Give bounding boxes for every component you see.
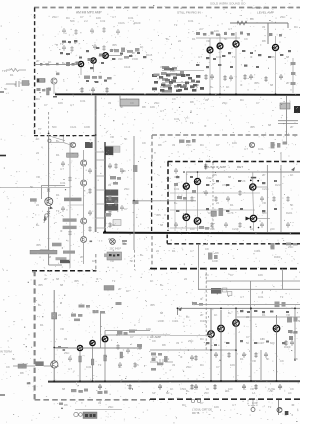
svg-text:1K: 1K: [214, 313, 218, 317]
component cluster above B+ bus: [56, 73, 160, 80]
svg-text:2.2: 2.2: [84, 19, 88, 23]
transistor Q18: [218, 325, 225, 332]
svg-text:5K: 5K: [124, 137, 128, 141]
capacitor C14: [229, 75, 233, 81]
svg-text:C7: C7: [80, 15, 84, 19]
svg-text:22: 22: [156, 249, 160, 253]
svg-text:39K: 39K: [210, 227, 215, 231]
svg-text:C7: C7: [172, 79, 176, 83]
resistor R26: [243, 74, 246, 80]
wire Q16 to bus: [104, 342, 106, 381]
wire vertical x54 bottom: [53, 290, 55, 361]
node bus94 x220: [219, 93, 221, 95]
relay K1 box: [211, 288, 221, 294]
wire x252 lower: [253, 222, 255, 231]
wire Q14 to bus: [79, 351, 81, 381]
wire Q10 emitter right: [257, 186, 269, 188]
tick left of ground bus start: [27, 382, 31, 384]
svg-text:C9: C9: [240, 21, 244, 25]
svg-text:33: 33: [160, 65, 164, 69]
wire y205 stub: [70, 204, 84, 206]
svg-text:22: 22: [36, 151, 40, 155]
wire x197 lower: [197, 225, 199, 231]
svg-text:820: 820: [270, 341, 275, 345]
svg-text:68: 68: [160, 311, 164, 315]
svg-text:10K: 10K: [58, 101, 63, 105]
wire y121: [278, 120, 298, 122]
wire Q5 collector stub: [219, 34, 221, 43]
capacitor C81: [120, 168, 124, 174]
component cluster AF left: [71, 302, 142, 347]
svg-text:D1: D1: [192, 37, 196, 41]
component cluster right of bus x96: [105, 165, 139, 217]
resistor R40: [190, 196, 193, 202]
svg-text:B+: B+: [160, 283, 164, 287]
svg-text:2P: 2P: [290, 125, 294, 129]
wire drop at x288: [287, 23, 289, 28]
dark marks det cluster: [164, 68, 195, 88]
capacitor C21 label: [40, 250, 50, 253]
svg-text:5K: 5K: [290, 203, 294, 207]
capacitor C43: [260, 196, 264, 202]
wire to Q21: [63, 142, 70, 145]
svg-text:455: 455: [134, 363, 139, 367]
svg-text:T2: T2: [174, 23, 178, 27]
svg-text:100K: 100K: [212, 259, 218, 263]
transistor Q6: [233, 41, 239, 47]
resistor R21: [105, 87, 108, 93]
wire y350: [150, 349, 237, 351]
svg-text:C215: C215: [262, 187, 269, 191]
svg-text:5K: 5K: [12, 357, 16, 361]
transistor Q11: [183, 214, 190, 221]
wire y187 from left edge: [0, 187, 70, 189]
svg-text:T2: T2: [280, 295, 284, 299]
svg-text:C7: C7: [246, 335, 250, 339]
transistor Q19: [233, 320, 240, 327]
transformer T4 core a: [106, 190, 119, 196]
capacitor C47: [286, 222, 290, 228]
transistor Q27: [51, 361, 58, 368]
resistor R41: [214, 196, 217, 202]
svg-text:1K: 1K: [150, 279, 154, 283]
switch S1 contact: [223, 288, 227, 292]
node bus381 x105: [104, 380, 106, 382]
svg-text:455: 455: [150, 303, 155, 307]
svg-text:4.7: 4.7: [228, 27, 232, 31]
capacitor C95: [68, 356, 72, 362]
resistor R91: [102, 27, 105, 33]
svg-text:5K: 5K: [266, 357, 270, 361]
resistor R63 body: [120, 352, 123, 358]
svg-text:68: 68: [160, 223, 164, 227]
resistor R30 body: [52, 313, 57, 319]
node small circle bottom: [45, 214, 48, 217]
svg-text:330: 330: [118, 57, 123, 61]
wire dashed x134 lower: [134, 250, 136, 270]
wire left edge tick 1: [0, 155, 6, 157]
resistor R24: [204, 74, 207, 80]
wire C30 to border: [44, 365, 52, 367]
svg-text:68: 68: [56, 277, 60, 281]
svg-text:0.01: 0.01: [174, 187, 180, 191]
wire x252 mid: [252, 191, 255, 215]
transistor Q20: [273, 325, 280, 332]
transistor Q25: [81, 237, 87, 243]
diode D2: [44, 216, 47, 222]
svg-text:R8: R8: [64, 403, 68, 407]
svg-text:4.7: 4.7: [232, 403, 236, 407]
svg-text:C7: C7: [230, 273, 234, 277]
svg-text:10K: 10K: [110, 223, 115, 227]
capacitor C44: [174, 222, 178, 228]
component cluster below ground bus left: [71, 389, 108, 395]
node I: [276, 380, 278, 382]
svg-text:22: 22: [216, 201, 220, 205]
transistor Q29b pair: [74, 412, 78, 416]
diode D3 wedge: [246, 217, 251, 221]
capacitor C52: [242, 352, 246, 358]
transistor Q21: [70, 142, 75, 147]
component cluster near border bottom-left: [37, 88, 52, 92]
resistor R95: [116, 344, 119, 350]
transistor Q13: [250, 215, 257, 222]
wire x100 down: [99, 311, 101, 348]
svg-text:B+: B+: [228, 311, 232, 315]
capacitor C82: [114, 200, 118, 206]
svg-text:TP1: TP1: [2, 69, 8, 73]
resistor R1: [237, 21, 247, 25]
node Q10 base dot: [250, 180, 252, 182]
resistor R20: [80, 87, 83, 93]
resistor R11 label: [63, 218, 77, 221]
resistor R43: [272, 196, 275, 202]
wire to node circle: [49, 136, 65, 141]
component cluster x288 y330: [288, 330, 298, 340]
transistor Q15: [90, 340, 95, 345]
svg-text:10K: 10K: [258, 273, 263, 277]
svg-text:C7: C7: [44, 103, 48, 107]
svg-text:0.01: 0.01: [86, 365, 92, 369]
svg-text:10K: 10K: [260, 337, 265, 341]
transistor Q2: [91, 58, 96, 63]
wire stub bus to x105 y190: [96, 189, 105, 191]
svg-text:220K: 220K: [158, 319, 164, 323]
svg-text:455: 455: [270, 55, 275, 59]
wire x84 seg4: [83, 224, 85, 237]
wire x286 cont: [286, 135, 288, 142]
node B: [62, 135, 64, 137]
wire x197 upper: [197, 172, 199, 178]
svg-text:22: 22: [246, 315, 250, 319]
svg-text:33: 33: [172, 363, 176, 367]
wire x198 below IF box: [198, 244, 200, 268]
svg-text:T2: T2: [98, 363, 102, 367]
transistor Q22: [81, 160, 87, 166]
svg-text:10K: 10K: [232, 141, 237, 145]
svg-text:R8: R8: [262, 39, 266, 43]
svg-text:5K: 5K: [120, 105, 124, 109]
battery inner marks: [85, 414, 96, 417]
svg-text:IF: IF: [60, 229, 63, 233]
svg-text:IF: IF: [204, 124, 207, 128]
svg-text:SOUND IF AMP: SOUND IF AMP: [204, 165, 226, 169]
svg-text:R4: R4: [200, 363, 204, 367]
resistor R27: [264, 76, 267, 82]
svg-text:10K: 10K: [96, 16, 101, 20]
wire Q7 collector stub: [275, 36, 277, 44]
svg-text:68: 68: [62, 387, 66, 391]
svg-text:C7: C7: [130, 335, 134, 339]
svg-text:5K: 5K: [130, 259, 134, 263]
capacitor C60: [98, 384, 102, 390]
solder cross b: [47, 211, 50, 214]
svg-text:10: 10: [250, 227, 253, 231]
svg-text:5K: 5K: [298, 319, 300, 323]
wire x84 seg1: [83, 150, 85, 160]
node C: [95, 134, 97, 136]
svg-text:22: 22: [36, 203, 40, 207]
node bus94 x236: [235, 93, 237, 95]
svg-text:SP: SP: [152, 391, 156, 395]
svg-text:C7: C7: [200, 401, 204, 405]
wire y308: [178, 307, 301, 309]
svg-text:2SC 945 P: 2SC 945 P: [110, 247, 122, 250]
svg-text:4.7: 4.7: [60, 167, 64, 171]
wire dash-dot x213: [212, 163, 214, 231]
resistor R61: [190, 384, 193, 390]
wire dash-dot vertical x49 upper: [48, 112, 50, 136]
IC U4 label box: [104, 286, 114, 291]
resistor R84: [108, 222, 111, 228]
svg-text:C9: C9: [130, 101, 134, 105]
jack J1 box: [18, 364, 26, 368]
wire y123: [278, 122, 298, 124]
component cluster x150 y352: [151, 353, 168, 371]
transistor Q7: [272, 44, 278, 50]
svg-text:R115: R115: [146, 53, 153, 57]
resistor R15 label: [56, 257, 67, 260]
small mark below dashed: [59, 403, 63, 405]
node y308 a: [177, 307, 179, 309]
svg-text:33: 33: [64, 337, 68, 341]
wire x261 down: [260, 350, 262, 381]
wire stub bus to x105 y204: [96, 203, 105, 205]
svg-text:2SC: 2SC: [170, 69, 175, 73]
component cluster right of Q3: [114, 48, 139, 59]
dark speckle top half: [38, 5, 285, 210]
svg-text:0.01: 0.01: [188, 19, 194, 23]
svg-text:B+: B+: [174, 201, 178, 205]
svg-text:R4: R4: [108, 203, 112, 207]
svg-text:R4: R4: [240, 98, 244, 102]
capacitor C30 body: [35, 361, 43, 366]
wire x206 dash-dot: [205, 268, 207, 350]
transistor Q16: [102, 336, 108, 342]
svg-text:1A: 1A: [252, 391, 255, 395]
transformer T4 core c: [106, 204, 119, 211]
resistor R60 body: [79, 356, 82, 362]
tick left edge y241: [90, 241, 93, 243]
svg-text:R8: R8: [158, 143, 162, 147]
node y308 b: [220, 307, 222, 309]
wire y70 det area: [162, 70, 204, 72]
wire x175 in IF box: [174, 186, 176, 231]
capacitor C16: [279, 74, 283, 80]
node IF a: [183, 171, 185, 173]
resistor R96: [138, 344, 141, 350]
wire Q6 emitter to bus: [235, 48, 237, 94]
svg-text:D1: D1: [172, 249, 176, 253]
svg-text:B+: B+: [210, 85, 214, 89]
wire y409 bottom left: [75, 409, 122, 411]
node IF e: [258, 227, 260, 229]
wire x286 right column: [286, 96, 288, 135]
svg-text:2SC: 2SC: [108, 405, 113, 409]
svg-text:SOLD WORK SOUND GO: SOLD WORK SOUND GO: [210, 2, 246, 6]
wire top-right interconnect: [196, 37, 240, 39]
svg-text:T2: T2: [190, 121, 194, 125]
wire x70 vertical: [69, 142, 71, 268]
svg-text:2SC: 2SC: [64, 351, 69, 355]
svg-text:C7: C7: [256, 101, 260, 105]
svg-text:2SC: 2SC: [222, 101, 227, 105]
svg-text:2P: 2P: [44, 277, 48, 281]
resistor R14 label: [63, 251, 75, 254]
svg-text:1K: 1K: [92, 259, 96, 263]
svg-text:56K: 56K: [70, 19, 75, 23]
svg-text:C9: C9: [244, 37, 248, 41]
svg-text:2P: 2P: [200, 313, 204, 317]
svg-text:4.7: 4.7: [190, 249, 194, 253]
wire dashed stub below sound IF block: [166, 235, 168, 244]
transistor Q1: [78, 61, 83, 66]
transistor Q14: [77, 345, 82, 350]
wire Q2 emitter stub: [93, 64, 95, 72]
svg-text:2SC: 2SC: [52, 15, 57, 19]
svg-text:T2: T2: [272, 143, 276, 147]
svg-text:0.01: 0.01: [252, 401, 258, 405]
capacitor C41: [204, 190, 208, 196]
capacitor C80: [108, 163, 112, 169]
capacitor C91: [90, 28, 94, 34]
wire y289: [198, 288, 300, 290]
wire y305: [196, 304, 300, 306]
resistor R62 body: [104, 355, 107, 361]
component cluster y236-268 right: [208, 243, 297, 260]
svg-text:C219: C219: [232, 227, 239, 231]
svg-text:0.01: 0.01: [60, 181, 66, 185]
svg-text:R221: R221: [286, 211, 293, 215]
wire y335: [105, 334, 170, 336]
svg-text:VR: VR: [168, 83, 172, 87]
svg-text:C407: C407: [258, 341, 265, 345]
wire stub bus to x105 y218: [96, 217, 105, 219]
resistor R31 body: [47, 88, 50, 95]
wire x276 down to bus: [276, 315, 278, 381]
svg-text:R409: R409: [284, 345, 291, 349]
capacitor C13: [210, 74, 214, 80]
wire x221 down to bus: [220, 310, 222, 381]
wire y172 in IF block: [186, 171, 300, 173]
svg-text:455: 455: [156, 213, 161, 217]
svg-text:10K: 10K: [214, 29, 219, 33]
svg-text:R109: R109: [134, 21, 141, 25]
svg-text:R8: R8: [162, 343, 166, 347]
svg-text:C7: C7: [216, 365, 220, 369]
svg-text:VR: VR: [250, 387, 254, 391]
wire vertical x49 lower: [48, 207, 50, 265]
svg-text:33: 33: [270, 245, 274, 249]
resistor R64: [254, 384, 257, 390]
svg-text:2P: 2P: [118, 287, 122, 291]
wire L1 to bus: [119, 95, 121, 99]
resistor R97: [133, 362, 136, 368]
svg-text:C301: C301: [254, 249, 261, 253]
svg-text:68: 68: [270, 83, 274, 87]
wire Q6 collector stub: [235, 32, 237, 40]
svg-text:10K: 10K: [150, 105, 155, 109]
svg-text:25V: 25V: [204, 391, 209, 395]
dots in U3 box: [109, 254, 119, 257]
node bus b: [250, 380, 252, 382]
svg-text:IF: IF: [74, 41, 77, 45]
svg-text:D1: D1: [226, 389, 230, 393]
resistor R60: [128, 384, 131, 390]
transistor Q30: [51, 78, 57, 84]
svg-text:R4: R4: [66, 16, 70, 20]
wire dashed bottom border right: [150, 398, 300, 400]
node Q10 right dot: [257, 180, 259, 182]
svg-text:C401: C401: [172, 319, 179, 323]
svg-text:B+: B+: [140, 253, 144, 257]
svg-text:68: 68: [286, 55, 290, 59]
svg-text:455: 455: [112, 43, 117, 47]
svg-text:33: 33: [172, 143, 176, 147]
wire Q7 emitter to bus: [275, 51, 277, 94]
wire C56 stem: [252, 400, 254, 408]
svg-text:2SC: 2SC: [154, 101, 159, 105]
wire y142 junction to x63: [48, 141, 63, 143]
svg-text:R4: R4: [36, 97, 40, 101]
svg-text:R8: R8: [20, 371, 24, 375]
capacitor C42: [226, 196, 230, 202]
wire x236 down to bus: [235, 308, 237, 381]
capacitor C53: [264, 352, 268, 358]
svg-text:1K: 1K: [126, 289, 130, 293]
IC U1 label box: [67, 153, 78, 157]
node J: [133, 200, 135, 202]
capacitor C96: [126, 348, 130, 354]
resistor R62: [213, 384, 216, 390]
node bus381 x54: [53, 380, 55, 382]
component cluster FM det area: [161, 66, 195, 93]
transistor Q28: [277, 408, 282, 413]
svg-text:IF: IF: [96, 277, 99, 281]
capacitor C51: [214, 352, 218, 358]
svg-text:D1: D1: [40, 323, 44, 327]
wire y64 to Q1: [35, 64, 78, 66]
tick near line start: [53, 96, 57, 98]
wire thick bus bottom of sound IF block: [103, 232, 300, 235]
capacitor C63: [242, 384, 246, 390]
svg-text:22: 22: [58, 313, 62, 317]
capacitor C70: [61, 161, 65, 167]
svg-text:1C: 1C: [186, 315, 189, 319]
resistor R16 label: [104, 254, 117, 258]
svg-text:LEVEL AMP: LEVEL AMP: [257, 11, 274, 15]
transistor Q3: [103, 53, 109, 59]
